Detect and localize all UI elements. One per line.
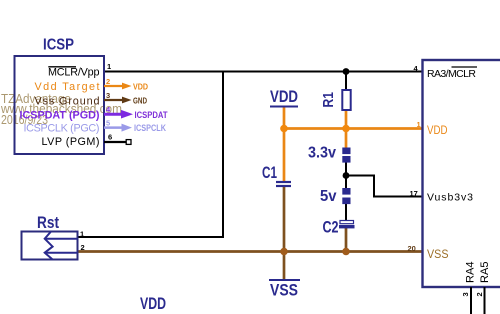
jumper 5v pads [320, 188, 351, 205]
net arrow GND (ICSP pin3) [104, 97, 147, 106]
svg-text:RA4: RA4 [465, 262, 477, 284]
pin 17 Vusb3v3 [410, 189, 474, 204]
svg-text:Rst: Rst [37, 213, 59, 232]
pin 2 RA5 [475, 262, 491, 314]
svg-text:R1: R1 [320, 92, 337, 108]
wire: jumper bottom to C2 top [345, 204, 347, 220]
svg-text:RA3/MCLR: RA3/MCLR [427, 68, 476, 80]
pin 3 RA4 [461, 262, 477, 314]
wire: VDD symbol down to C1 top [283, 107, 286, 181]
wire: jumper middle segment [345, 163, 347, 189]
svg-text:1: 1 [417, 120, 421, 129]
capacitor C1 [262, 164, 291, 186]
IC U1 box [423, 60, 500, 287]
pin 4 RA3/MCLR [414, 64, 478, 80]
pin 2 Vdd Target row [35, 77, 111, 93]
wire: jumper center to U1 pin17 Vusb3v3 [346, 176, 422, 197]
svg-text:6: 6 [108, 132, 112, 141]
svg-text:5v: 5v [320, 188, 337, 205]
svg-text:GND: GND [133, 97, 147, 106]
wire: MCLR net down to Rst pin1 [78, 72, 223, 238]
wire: C2 bottom lead to VSS [345, 228, 348, 252]
svg-text:2: 2 [475, 292, 484, 296]
node: junction VDD/R1 [342, 125, 350, 133]
svg-text:ICSPDAT (PGD): ICSPDAT (PGD) [20, 109, 100, 121]
svg-text:1: 1 [107, 62, 111, 71]
svg-text:2: 2 [81, 243, 85, 252]
svg-text:5: 5 [106, 119, 110, 128]
pin 20 VSS [408, 244, 449, 261]
svg-text:ICSPCLK (PGC): ICSPCLK (PGC) [24, 122, 100, 134]
pin 5 ICSPCLK row [24, 119, 111, 135]
pin 3 Vss Ground row [35, 91, 111, 108]
capacitor C2 [323, 218, 355, 237]
svg-text:MCLR/Vpp: MCLR/Vpp [48, 67, 100, 79]
node: junction VSS/C2 [342, 248, 350, 256]
wire: R1 bottom lead to jumper top [345, 110, 348, 148]
svg-text:Vss Ground: Vss Ground [35, 96, 100, 108]
svg-text:C1: C1 [262, 164, 277, 182]
net arrow ICSPCLK (ICSP pin5) [104, 123, 166, 133]
svg-text:VDD: VDD [133, 83, 148, 92]
svg-text:Vusb3v3: Vusb3v3 [427, 192, 473, 204]
svg-text:VDD: VDD [270, 88, 298, 106]
svg-text:Vdd Target: Vdd Target [35, 81, 100, 93]
svg-text:VSS: VSS [270, 282, 298, 300]
svg-text:VDD: VDD [427, 125, 448, 137]
svg-text:17: 17 [410, 189, 418, 198]
watermark [0, 92, 122, 127]
svg-text:20: 20 [408, 244, 416, 253]
connector J1 ICSP box [15, 56, 105, 154]
svg-text:3: 3 [461, 292, 470, 296]
pin 6 LVP row [42, 132, 132, 148]
wire: VSS net vertical below C1 [283, 186, 286, 280]
node: junction jumper center [343, 172, 350, 179]
svg-text:ICSPCLK: ICSPCLK [134, 123, 166, 133]
pin 1 MCLR/Vpp row [48, 62, 111, 79]
wire: VDD net horizontal to U1 pin1 [284, 127, 422, 130]
node: junction MCLR/R1 [343, 68, 350, 75]
svg-text:ICSPDAT: ICSPDAT [135, 110, 168, 120]
net arrow ICSPDAT (ICSP pin4) [104, 110, 168, 120]
pin 4 ICSPDAT row [20, 105, 112, 121]
power symbol VDD top [270, 88, 298, 107]
svg-text:3: 3 [106, 91, 110, 100]
node: junction VDD/C1 [280, 125, 288, 133]
svg-text:3.3v: 3.3v [308, 145, 336, 162]
svg-text:VSS: VSS [427, 247, 449, 261]
power symbol VSS bottom [269, 280, 300, 300]
resistor R1 [320, 90, 351, 110]
wire: VSS net horizontal, Rst pin2 to U1 pin20 [78, 250, 422, 253]
svg-text:RA5: RA5 [479, 262, 491, 284]
connector Rst [22, 213, 85, 260]
svg-text:1: 1 [80, 230, 84, 239]
jumper 3.3v pads [308, 145, 351, 163]
pin 1 VDD [417, 120, 448, 137]
svg-text:ICSP: ICSP [43, 37, 74, 54]
svg-text:LVP (PGM): LVP (PGM) [42, 136, 100, 148]
svg-text:C2: C2 [323, 218, 339, 237]
wire: MCLR net, ICSP pin1 to U1 pin4 [104, 71, 422, 73]
node: junction VSS/C1 [280, 248, 288, 256]
wire: R1 top lead [345, 72, 347, 91]
svg-text:2: 2 [106, 77, 110, 86]
svg-text:VDD: VDD [140, 295, 166, 313]
net arrow VDD (ICSP pin2) [104, 83, 148, 92]
